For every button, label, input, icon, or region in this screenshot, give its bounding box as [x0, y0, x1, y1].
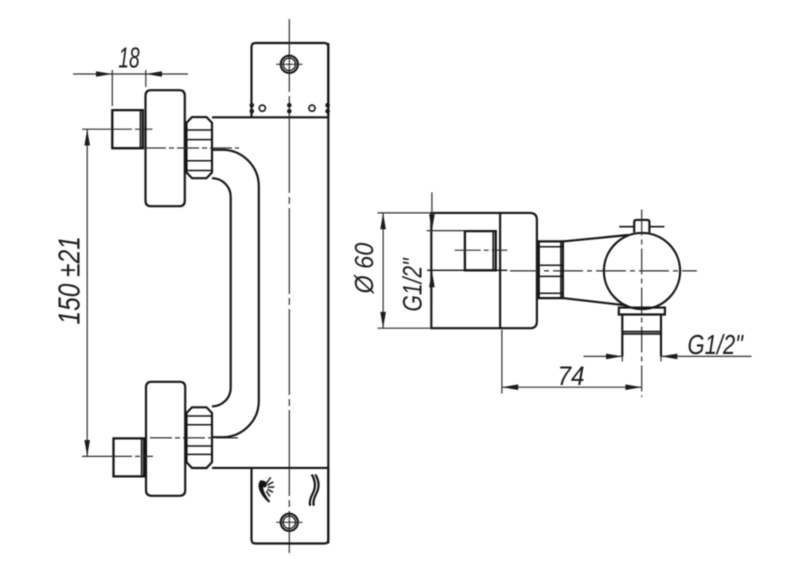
nut centerline side — [455, 249, 508, 251]
dimension G1/2 outlet — [584, 355, 752, 357]
bottom nut centerline — [82, 455, 153, 457]
square union nut side — [465, 231, 496, 270]
inner arm contour — [212, 150, 259, 437]
dimension 18 — [73, 70, 188, 106]
wave icon bottom plate right — [310, 475, 319, 506]
svg-text:18: 18 — [118, 43, 140, 75]
svg-text:G1/2": G1/2" — [688, 330, 745, 361]
outer arm contour — [212, 178, 231, 406]
svg-text:Ø 60: Ø 60 — [351, 243, 379, 295]
plate holes row — [259, 105, 265, 111]
body right edge — [327, 43, 329, 544]
screw bottom — [281, 514, 298, 531]
svg-text:150 ±21: 150 ±21 — [52, 236, 86, 324]
spray icon bottom plate left — [259, 480, 271, 503]
knob button — [634, 220, 649, 233]
svg-text:74: 74 — [557, 362, 584, 391]
knurled nut side — [539, 241, 563, 298]
dimension 150 +-21 — [86, 129, 88, 456]
screw top — [281, 56, 298, 73]
svg-text:G1/2": G1/2" — [398, 257, 428, 311]
dimension 74 — [502, 330, 642, 394]
top nut centerline — [82, 128, 153, 130]
bottom connector centerline — [150, 437, 239, 439]
bottom hex nut — [114, 438, 145, 476]
top wall plate — [252, 43, 329, 117]
main axis — [510, 270, 697, 272]
outlet pipe — [622, 315, 661, 357]
taper cone to knob — [563, 235, 628, 241]
centerline front view — [288, 19, 290, 553]
top ribbed connector — [187, 117, 213, 178]
body block — [431, 213, 537, 328]
division line plate/body — [499, 213, 501, 328]
nut bottom edge extended — [427, 269, 507, 271]
body bottom edge — [212, 467, 328, 469]
bottom escutcheon — [146, 382, 185, 496]
knob vertical centerline — [641, 210, 643, 398]
top connector centerline — [144, 147, 239, 149]
bottom wall plate — [252, 468, 329, 544]
dimension D60 — [378, 213, 432, 328]
outlet shoulder — [619, 308, 665, 315]
dimension G1/2 side — [427, 192, 465, 308]
top escutcheon — [146, 90, 185, 206]
bottom ribbed connector — [187, 407, 213, 468]
body top edge — [212, 116, 328, 118]
top hex nut — [112, 110, 143, 148]
knob circle — [604, 233, 680, 309]
